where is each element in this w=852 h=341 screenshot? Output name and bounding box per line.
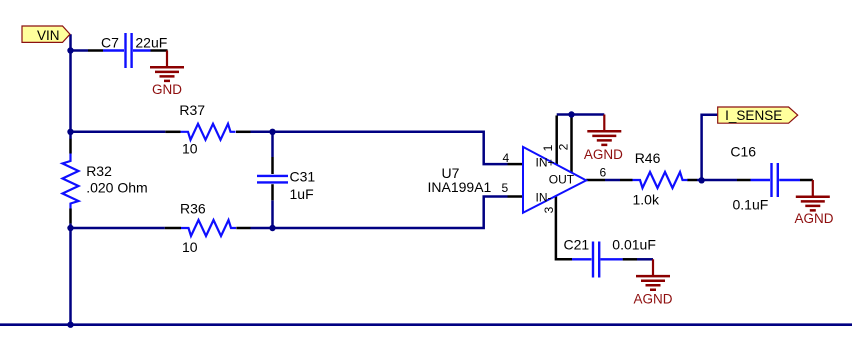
- svg-text:OUT: OUT: [549, 173, 575, 187]
- svg-text:I_SENSE: I_SENSE: [725, 108, 782, 123]
- svg-text:R36: R36: [180, 200, 206, 216]
- svg-text:IN+: IN+: [536, 156, 555, 170]
- svg-text:INA199A1: INA199A1: [428, 179, 492, 195]
- svg-text:2: 2: [557, 143, 571, 150]
- svg-text:5: 5: [502, 181, 509, 195]
- svg-text:1.0k: 1.0k: [633, 192, 660, 208]
- svg-text:C31: C31: [290, 169, 316, 185]
- svg-text:3: 3: [542, 206, 556, 213]
- svg-text:AGND: AGND: [584, 147, 623, 162]
- svg-text:AGND: AGND: [633, 292, 672, 307]
- svg-text:C16: C16: [730, 144, 756, 160]
- svg-text:R32: R32: [86, 163, 112, 179]
- svg-text:GND: GND: [152, 82, 182, 97]
- svg-text:4: 4: [503, 151, 510, 165]
- svg-text:0.1uF: 0.1uF: [733, 197, 769, 213]
- svg-text:10: 10: [182, 141, 198, 157]
- svg-text:C7: C7: [101, 35, 119, 51]
- svg-text:6: 6: [600, 165, 607, 179]
- svg-text:R37: R37: [179, 102, 205, 118]
- svg-text:0.01uF: 0.01uF: [612, 237, 656, 253]
- svg-text:22uF: 22uF: [135, 35, 167, 51]
- svg-text:1uF: 1uF: [290, 186, 314, 202]
- svg-text:AGND: AGND: [794, 211, 833, 226]
- svg-text:R46: R46: [635, 150, 661, 166]
- svg-text:1: 1: [541, 144, 555, 151]
- svg-text:10: 10: [182, 239, 198, 255]
- svg-text:VIN: VIN: [37, 28, 60, 43]
- svg-text:C21: C21: [564, 237, 590, 253]
- svg-text:IN-: IN-: [536, 190, 552, 204]
- svg-text:.020 Ohm: .020 Ohm: [86, 180, 147, 196]
